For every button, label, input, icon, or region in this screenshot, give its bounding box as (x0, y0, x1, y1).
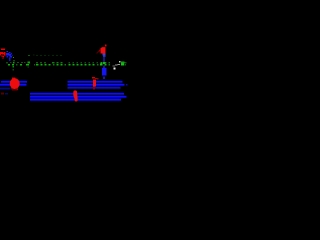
long blue line 1 (y=93) (30, 92, 124, 95)
red variant blob (top right) (96, 45, 106, 54)
right blue bar 3 (68, 87, 121, 90)
vertical dashed green marker (x=13) (13, 62, 15, 71)
green dash over pin (103, 62, 106, 64)
dashed green line (y=62) (6, 62, 126, 68)
right blue bar 2 (67, 83, 127, 86)
red lollipop marker on lines (73, 90, 77, 101)
gray comet streak (right) (112, 61, 120, 69)
dim red fleck right of navy bar (11, 88, 14, 90)
long blue line 2 (y=95.8) (30, 95, 127, 98)
dark red dash (bottom left) (1, 93, 4, 95)
dim dashed green line (y=55) (28, 54, 62, 56)
red dash above left circle (12, 78, 15, 79)
left blue bar 2 (0, 83, 27, 86)
dim navy dash (bottom left) (5, 93, 8, 95)
left navy bar 3 (dim) (0, 88, 11, 90)
blue pin under red blob (102, 54, 105, 68)
green tick marks near left label (13, 57, 15, 62)
red bar marker (right group) (93, 79, 96, 89)
red label text (left) (0, 49, 6, 59)
blue marker box (102, 68, 106, 79)
background (0, 0, 128, 128)
blue label text (left) (6, 51, 13, 61)
red circle marker (left) (10, 78, 20, 91)
left blue bar 1 (1, 80, 27, 83)
long blue line 3 (y=98.7) (30, 98, 121, 101)
right blue bar 1 (67, 80, 122, 83)
bright dashed green line (y=64) (8, 64, 126, 66)
red squiggle above red bar (92, 77, 99, 79)
